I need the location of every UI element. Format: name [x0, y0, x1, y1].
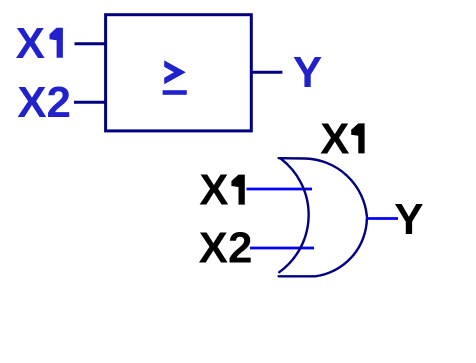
wire: U2 input X2 — [250, 247, 314, 250]
svg-text:Y: Y — [293, 48, 322, 97]
svg-text:X2: X2 — [17, 78, 71, 127]
U2 top curve — [279, 158, 367, 216]
U1 qualifying symbol ">=" (chevron) — [164, 60, 186, 84]
wire: U1 input X2 — [74, 101, 107, 104]
OR gate U2 (ANSI distinctive-shape symbol) label X1 above — [320, 114, 365, 163]
svg-text:X: X — [16, 19, 45, 68]
U1 input label X1 — [16, 19, 63, 68]
OR gate U1 (IEC rectangular symbol) body — [106, 15, 252, 131]
wire: U1 output — [250, 71, 282, 74]
wire: U2 output — [367, 217, 399, 220]
svg-text:X2: X2 — [199, 224, 253, 273]
svg-text:X: X — [199, 166, 228, 215]
U2 input label X1 — [199, 166, 245, 215]
wire: U1 input X1 — [75, 42, 108, 45]
U1 qualifying symbol underline — [163, 90, 187, 95]
U2 bottom curve — [279, 218, 367, 276]
svg-text:X: X — [320, 114, 349, 163]
OR gate U2 body (distinctive shape) — [279, 158, 367, 276]
svg-text:Y: Y — [394, 195, 423, 244]
wire: U2 input X1 — [247, 188, 313, 191]
U2 back concave arc — [279, 159, 308, 272]
